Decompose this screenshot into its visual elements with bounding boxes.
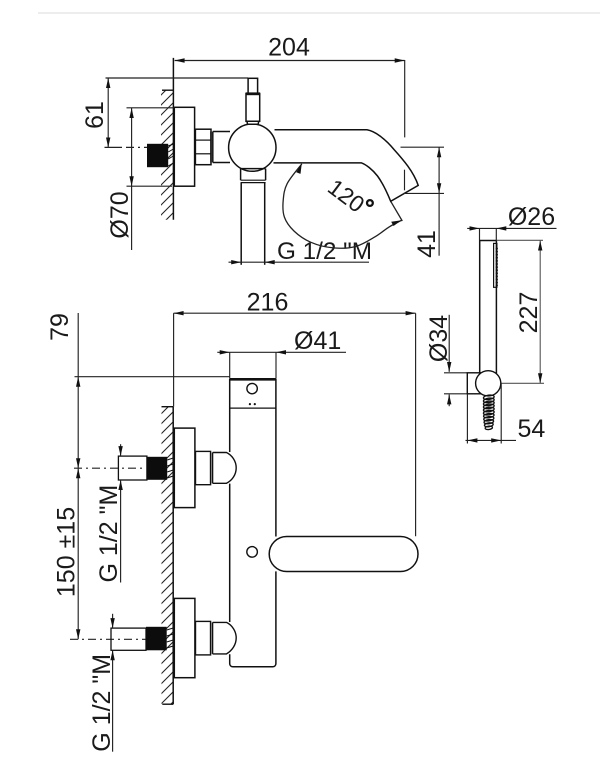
axis upper inlet — [74, 467, 146, 469]
faint page border line — [38, 12, 600, 14]
G 1/2 M lower label — [110, 614, 114, 752]
svg-text:Ø26: Ø26 — [508, 203, 555, 231]
svg-text:G 1/2 "M: G 1/2 "M — [88, 654, 116, 752]
hex + dome upper — [196, 451, 237, 484]
dimension G 1/2 M (top) — [229, 260, 370, 264]
hose coil — [483, 394, 494, 430]
G 1/2 M upper label — [118, 444, 122, 582]
lever (bottom view) capsule — [269, 537, 418, 572]
svg-text:61: 61 — [81, 101, 109, 129]
svg-text:G 1/2 "M: G 1/2 "M — [277, 238, 372, 265]
svg-text:Ø41: Ø41 — [294, 327, 341, 355]
spray nozzle dots — [496, 247, 498, 286]
dimension O34 — [444, 315, 467, 406]
shower wand — [480, 241, 497, 375]
main body bar (bottom view) — [230, 379, 276, 667]
hex + dome lower — [196, 621, 237, 655]
wall (bottom view) — [150, 385, 190, 725]
svg-text:227: 227 — [515, 292, 543, 334]
inlet upper: pipe + black block — [118, 456, 173, 480]
dimension 150 +-15 — [76, 468, 80, 639]
svg-text:41: 41 — [413, 230, 441, 258]
dimension 204 — [175, 58, 405, 190]
svg-text:Ø70: Ø70 — [106, 191, 134, 238]
wall bracket plate — [467, 373, 480, 394]
centerline axis (top view) — [105, 146, 123, 148]
spout tip direction extension line — [391, 201, 403, 221]
axis lower inlet — [70, 638, 146, 640]
svg-text:54: 54 — [518, 415, 546, 443]
handle lever (top view) — [246, 78, 261, 124]
wall inlet black block (top view) — [147, 144, 173, 167]
120 degree arc — [283, 163, 402, 248]
flange lower (bottom view) — [174, 598, 195, 677]
mixer body circle — [229, 124, 276, 171]
dimension 41 — [401, 147, 445, 256]
hex nut (top view) — [195, 129, 230, 165]
dimension O70 — [127, 108, 175, 250]
inlet lower: pipe + black block — [111, 627, 173, 651]
spout — [274, 130, 419, 202]
svg-text:G 1/2 "M: G 1/2 "M — [95, 485, 123, 583]
dimension 227 — [497, 240, 544, 383]
svg-text:216: 216 — [247, 289, 289, 317]
dimension O26 — [467, 226, 556, 240]
pipe to body — [213, 131, 230, 133]
svg-text:79: 79 — [46, 313, 74, 341]
degree ring of 120 label — [367, 200, 373, 206]
dimension O41 — [217, 350, 346, 379]
dimension 61 — [106, 78, 249, 148]
flange (top view rosette) — [174, 107, 194, 186]
svg-text:Ø34: Ø34 — [425, 315, 453, 362]
bracket knob circle — [476, 371, 501, 396]
wall (top view) hatched strip — [150, 58, 190, 236]
svg-text:204: 204 — [268, 34, 310, 62]
dimension 54 — [466, 384, 517, 444]
flange upper (bottom view) — [174, 428, 195, 508]
dimension 216 — [174, 311, 416, 536]
outlet below circle — [241, 169, 266, 265]
ring — [210, 132, 212, 163]
svg-text:150 ±15: 150 ±15 — [53, 507, 81, 597]
wall surface line — [172, 58, 174, 220]
dimension 79 — [75, 313, 230, 468]
